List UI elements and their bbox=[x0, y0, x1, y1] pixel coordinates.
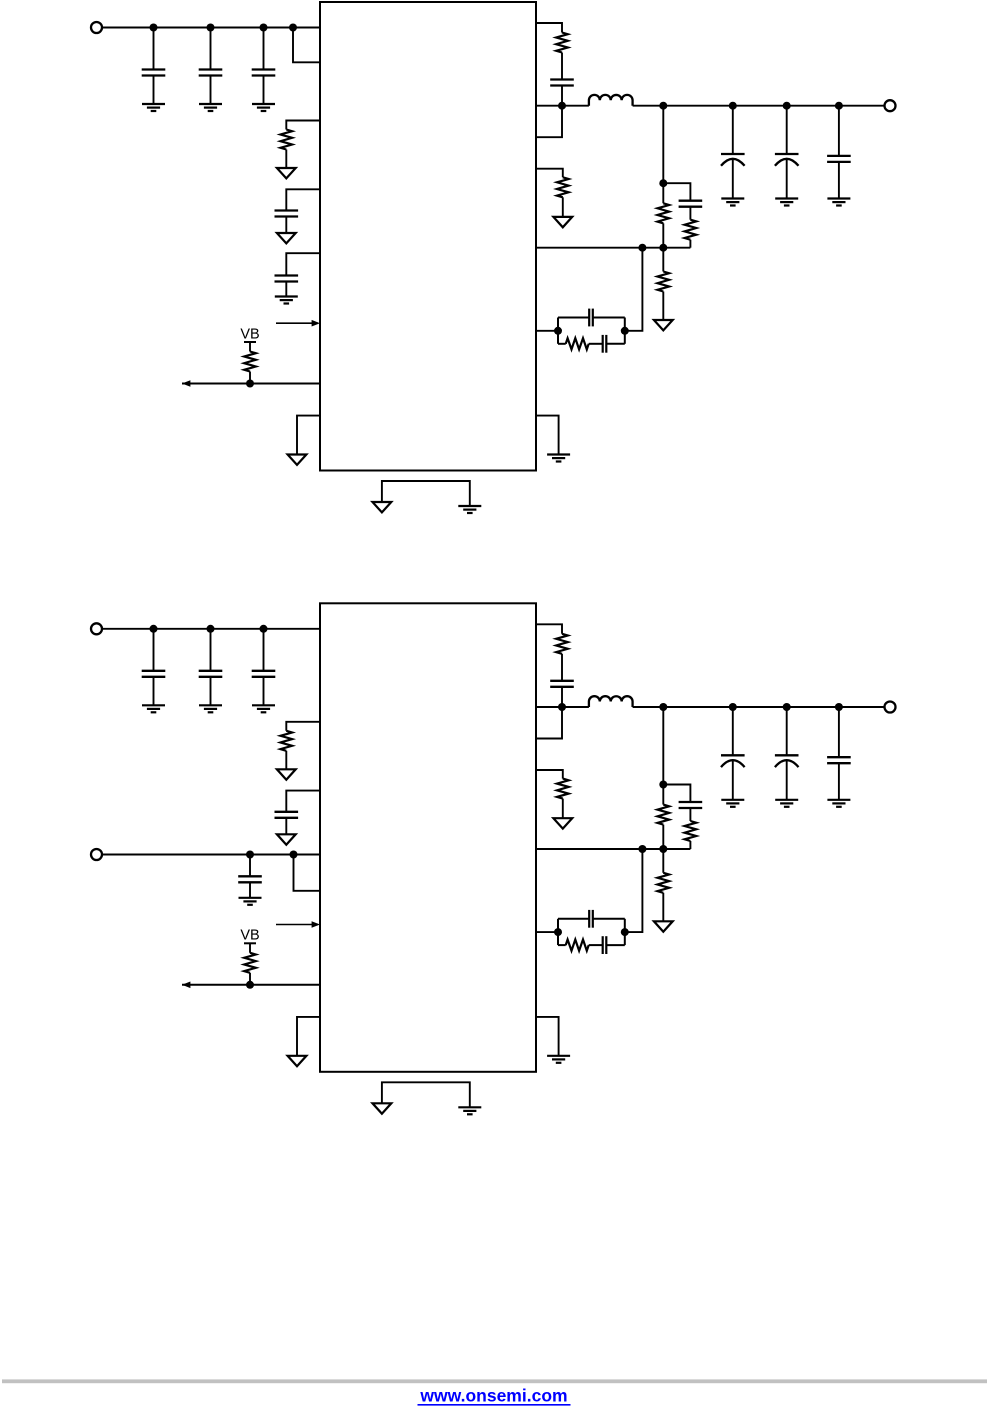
svg-text:www.onsemi.com: www.onsemi.com bbox=[419, 1386, 567, 1406]
svg-text:VB: VB bbox=[240, 326, 259, 342]
